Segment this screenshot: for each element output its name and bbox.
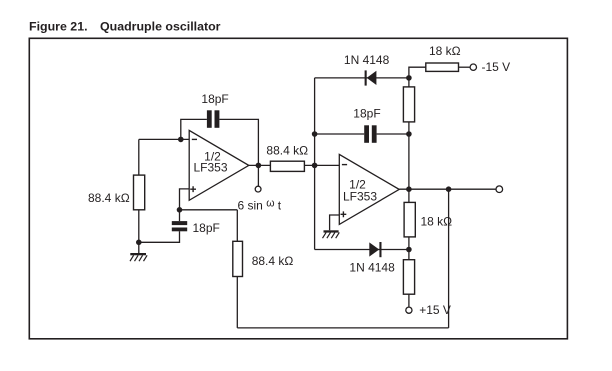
wire: left rail (R1 leg to ground) bbox=[138, 139, 140, 242]
node: D2 rail junction bbox=[406, 247, 412, 253]
wire: C1 feedback loop right segment bbox=[219, 119, 258, 165]
wire: bottom feedback rail bbox=[237, 327, 448, 329]
figure caption bbox=[29, 19, 221, 33]
svg-text:LF353: LF353 bbox=[193, 161, 227, 175]
resistor R2 88.4k (between op-amps, horizontal) bbox=[270, 161, 304, 171]
terminal: -15V circle bbox=[470, 64, 476, 70]
wire: op2 output bbox=[399, 188, 496, 190]
terminal: output circle right bbox=[496, 186, 503, 193]
wire: R5 to -15V terminal bbox=[459, 66, 471, 68]
wire: R4 leg down to bottom feedback rail bbox=[236, 210, 238, 328]
wire: diode D2 branch bbox=[315, 249, 409, 251]
wire: capacitor C3 feedback branch right segment bbox=[377, 133, 409, 135]
svg-text:88.4 kΩ: 88.4 kΩ bbox=[88, 191, 130, 205]
wire: stage2 left rail bbox=[314, 78, 316, 250]
svg-text:18pF: 18pF bbox=[193, 221, 220, 235]
svg-text:1N 4148: 1N 4148 bbox=[349, 260, 395, 274]
wire: op2 non-inverting input to ground bbox=[330, 215, 340, 230]
node: C3 left junction bbox=[312, 131, 318, 137]
wire: C1 feedback loop left segment bbox=[181, 119, 207, 139]
capacitor C3 18pF plates bbox=[364, 125, 376, 143]
node: op2 inverting input junction bbox=[312, 163, 318, 169]
resistor R4 88.4k (bottom, vertical) bbox=[233, 241, 243, 276]
wire: diode D1 branch bbox=[315, 77, 409, 79]
node: C3 right junction bbox=[406, 131, 412, 137]
diode D1 1N4148 bbox=[365, 70, 377, 85]
wire: op1 output stub to sine terminal bbox=[257, 165, 259, 186]
op-amp U2 1/2 LF353 bbox=[339, 154, 399, 224]
resistor R8 (bottom right rail, vertical) bbox=[403, 260, 414, 295]
wire: op1 plus node to R4 bbox=[180, 209, 238, 211]
wire: stage2 right rail lower bbox=[408, 189, 410, 249]
node: op2 output rail junction bbox=[406, 186, 412, 192]
svg-text:18pF: 18pF bbox=[201, 92, 228, 106]
node: op1 output junction bbox=[256, 163, 262, 169]
node: op1 plus input junction bbox=[177, 207, 183, 213]
svg-text:LF353: LF353 bbox=[343, 189, 377, 203]
capacitor C2 18pF plates bbox=[172, 221, 187, 231]
wire: op1 non-inverting input bbox=[180, 189, 190, 210]
ground GND1 bbox=[130, 242, 147, 261]
terminal: 6 sin wt output circle bbox=[255, 186, 261, 192]
node: feedback riser junction bbox=[446, 186, 452, 192]
wire: op1 inverting input from left rail bbox=[139, 138, 189, 140]
wire: feedback riser to op2 output bbox=[448, 189, 450, 328]
diode D2 1N4148 bbox=[369, 242, 381, 257]
svg-text:-15 V: -15 V bbox=[482, 60, 511, 74]
svg-text:88.4 kΩ: 88.4 kΩ bbox=[252, 254, 294, 268]
svg-text:6 sin ω t: 6 sin ω t bbox=[238, 197, 282, 212]
svg-text:18 kΩ: 18 kΩ bbox=[421, 214, 453, 228]
wire: right rail to +15V terminal bbox=[408, 250, 410, 308]
capacitor C1 18pF plates bbox=[207, 110, 220, 128]
resistor R5 18k (top, horizontal) bbox=[426, 63, 459, 71]
ground GND2 bbox=[323, 230, 340, 238]
wire: stage2 right rail top bbox=[408, 78, 410, 189]
wire: op1 plus node to C2 bbox=[179, 210, 181, 221]
svg-text:+15 V: +15 V bbox=[419, 303, 451, 317]
resistor R1 88.4k (left, vertical) bbox=[134, 175, 145, 210]
wire: D1 node up to R5 bbox=[409, 67, 426, 78]
svg-text:Figure 21.: Figure 21. bbox=[29, 19, 88, 33]
svg-text:88.4 kΩ: 88.4 kΩ bbox=[266, 143, 308, 157]
resistor R7 18k (right rail, vertical) bbox=[404, 202, 415, 237]
resistor R6 (right rail upper, vertical) bbox=[403, 87, 414, 122]
wire: capacitor C3 feedback branch left segment bbox=[315, 133, 365, 135]
wire: C2 bottom to ground run bbox=[139, 231, 180, 242]
node: op1 feedback tap junction bbox=[178, 137, 184, 143]
figure border frame bbox=[29, 38, 567, 339]
node: D1 cathode-rail junction bbox=[406, 75, 412, 81]
op-amp U1 1/2 LF353 bbox=[189, 130, 249, 200]
wire: op1 output to op2 inverting input bbox=[249, 164, 339, 166]
svg-text:1N 4148: 1N 4148 bbox=[344, 53, 390, 67]
svg-text:Quadruple oscillator: Quadruple oscillator bbox=[100, 19, 221, 33]
svg-text:18 kΩ: 18 kΩ bbox=[429, 44, 461, 58]
node: ground junction bbox=[136, 240, 142, 246]
svg-text:18pF: 18pF bbox=[353, 107, 380, 121]
terminal: +15V circle bbox=[406, 307, 412, 313]
